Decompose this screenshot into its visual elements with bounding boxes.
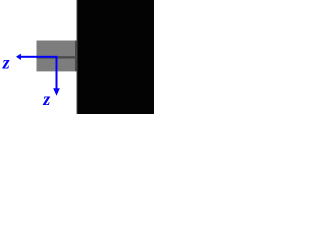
svg-text:z: z	[2, 53, 10, 73]
svg-text:z: z	[42, 89, 50, 109]
